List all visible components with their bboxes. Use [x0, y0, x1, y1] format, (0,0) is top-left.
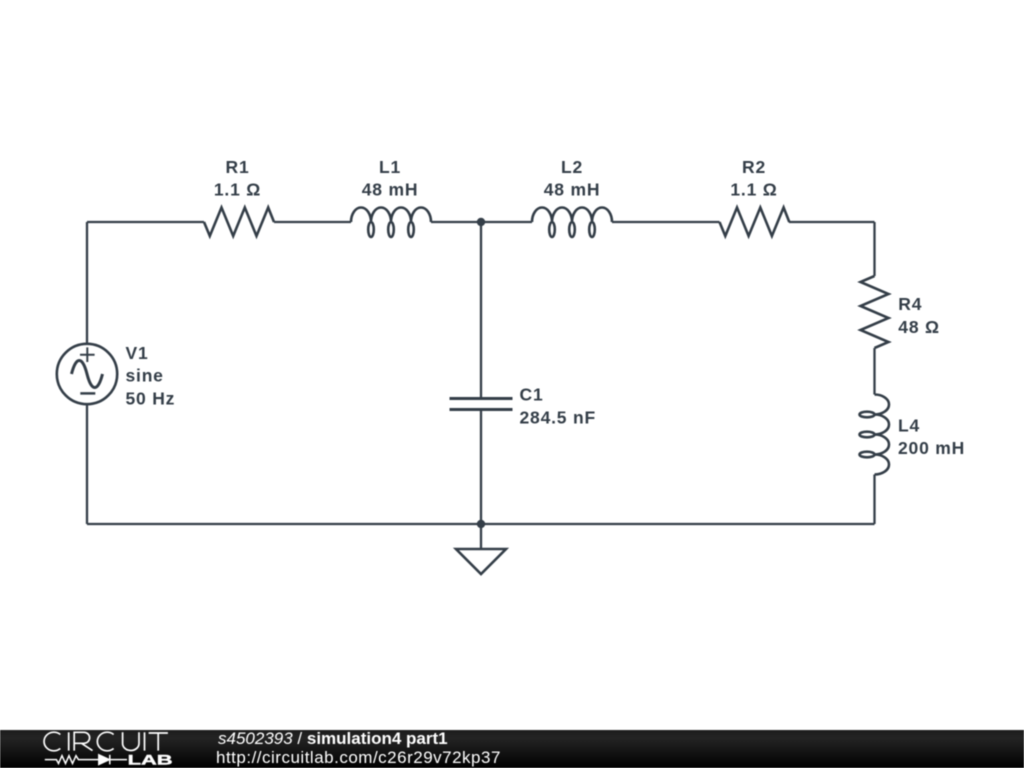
wire: R1 to L1 [274, 221, 351, 223]
svg-text:R1: R1 [226, 157, 250, 177]
wire: R4 to L4 [873, 348, 875, 395]
svg-text:50 Hz: 50 Hz [126, 388, 176, 408]
svg-text:C1: C1 [520, 385, 544, 405]
svg-text:1.1 Ω: 1.1 Ω [730, 180, 777, 200]
svg-text:s4502393 / simulation4 part1: s4502393 / simulation4 part1 [218, 729, 448, 748]
svg-text:V1: V1 [126, 343, 149, 363]
wire: left vertical bottom (V1 to bottom rail) [86, 404, 88, 524]
inductor L1 [351, 208, 431, 238]
wire: bottom rail [87, 523, 875, 525]
wire: L2 to R2 [612, 221, 720, 223]
CircuitLab logo: CIRCUIT wordmark (hand-drawn thin strokes) [44, 732, 168, 751]
resistor R4 [861, 276, 889, 348]
inductor L4 [860, 395, 890, 475]
CircuitLab logo: resistor-diode line [45, 755, 127, 765]
svg-text:L2: L2 [561, 157, 583, 177]
svg-text:LAB: LAB [128, 752, 173, 767]
wire: C1 bottom plate to bottom rail [480, 410, 482, 525]
svg-text:200 mH: 200 mH [898, 438, 965, 458]
svg-text:L1: L1 [379, 157, 401, 177]
svg-text:sine: sine [126, 366, 164, 386]
wire: right vertical, corner to R4 [873, 222, 875, 276]
capacitor C1 [450, 399, 513, 410]
wire: L1 to node A to L2 [431, 221, 532, 223]
svg-text:R2: R2 [742, 157, 766, 177]
svg-text:http://circuitlab.com/c26r29v7: http://circuitlab.com/c26r29v72kp37 [216, 748, 501, 767]
svg-text:R4: R4 [898, 294, 922, 314]
voltage source V1 [57, 344, 117, 404]
svg-text:1.1 Ω: 1.1 Ω [214, 180, 261, 200]
wire: top rail, V1 to R1 [87, 221, 204, 223]
svg-text:48 mH: 48 mH [544, 180, 601, 200]
wire: R2 to right corner [789, 221, 875, 223]
resistor R2 [720, 208, 790, 237]
svg-text:48 Ω: 48 Ω [898, 317, 940, 337]
wire: L4 to bottom rail [873, 475, 875, 525]
svg-text:L4: L4 [898, 416, 920, 436]
node A (top junction) [477, 218, 485, 226]
node B (bottom junction) [477, 520, 485, 528]
svg-text:48 mH: 48 mH [362, 180, 419, 200]
wire: left vertical top (V1 to top rail) [86, 222, 88, 344]
inductor L2 [532, 208, 612, 238]
ground [456, 549, 506, 574]
wire: node A to C1 top plate [480, 222, 482, 399]
wire: ground stub [480, 524, 482, 549]
resistor R1 [204, 208, 274, 237]
svg-text:284.5 nF: 284.5 nF [520, 408, 596, 428]
